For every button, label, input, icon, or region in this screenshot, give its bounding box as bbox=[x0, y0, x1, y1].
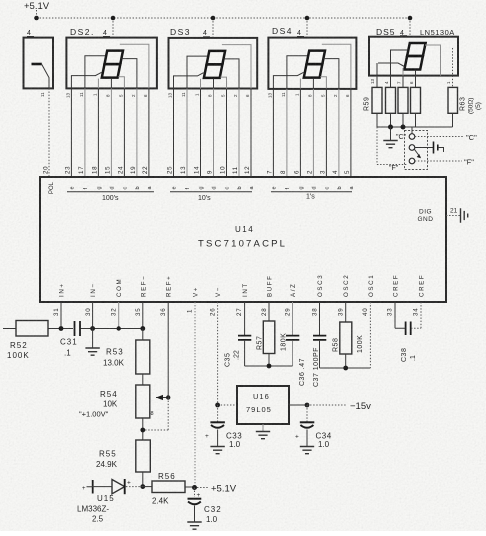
pin 4 of half-digit display bbox=[27, 30, 34, 37]
U14 bottom pin labels bbox=[59, 274, 426, 297]
U14 top pin numbers 10's group bbox=[167, 166, 252, 174]
label "F" terminal bbox=[464, 158, 474, 167]
wire V- pin26 to U16 bbox=[215, 302, 237, 407]
capacitor C33 bbox=[205, 405, 242, 449]
wire input row to REF- bbox=[48, 328, 143, 330]
7-segment digit inside DS5 bbox=[377, 43, 453, 76]
U14 bottom pin numbers bbox=[53, 308, 420, 316]
node rail junction at left bbox=[34, 16, 39, 21]
capacitor C35 bbox=[225, 302, 252, 367]
node COM bbox=[117, 302, 121, 331]
ground below C34 bbox=[300, 447, 314, 454]
node IN- bbox=[90, 302, 95, 331]
switch contact C bbox=[409, 127, 415, 139]
capacitor C32 bbox=[188, 488, 222, 525]
node -15V junction bbox=[289, 403, 309, 408]
wire bundle DS3 to U14 bbox=[174, 89, 252, 178]
half-digit display (minus sign) box bbox=[24, 38, 54, 89]
node R54 bottom bbox=[140, 418, 145, 440]
node rail junction DS5 bbox=[408, 16, 413, 21]
label "C" near ground bbox=[396, 134, 407, 141]
group bracket 1's bbox=[271, 192, 352, 201]
ground below C32 bbox=[187, 522, 201, 529]
POL pin label inside U14 bbox=[49, 181, 55, 194]
node bank bus dot 1 bbox=[388, 125, 393, 130]
U14 top pin numbers 1's group bbox=[267, 170, 352, 174]
net +5.1V at R56 bbox=[197, 484, 237, 495]
wire to F terminal bbox=[415, 160, 462, 162]
U14 part number TSC7107ACPL bbox=[198, 239, 287, 250]
wire +5.1V rail (dotted) bbox=[37, 10, 411, 38]
switch contact common bbox=[409, 145, 421, 159]
node bank bus dot 2 bbox=[401, 125, 406, 130]
net +5.1V top label bbox=[24, 1, 50, 12]
capacitor C38 bbox=[395, 302, 421, 362]
segment letters 10's group inside U14 bbox=[172, 186, 256, 190]
pin 4 of DS2 bbox=[103, 30, 110, 37]
U14 reference designator bbox=[235, 225, 254, 234]
capacitor C36 bbox=[286, 302, 306, 386]
switch S (C/F select) dashed box bbox=[405, 131, 428, 170]
wire REF+ to wiper bbox=[143, 302, 168, 430]
battery symbol at switch common bbox=[415, 142, 444, 154]
wire pin 21 to ground bbox=[446, 215, 460, 217]
wire oscillator node bbox=[320, 366, 371, 371]
resistor R58 bbox=[333, 302, 365, 368]
label "F" near switch bbox=[389, 165, 399, 172]
wire resistor bank bottom bus bbox=[377, 113, 453, 127]
ground at pin 21 (rotated) bbox=[461, 208, 468, 222]
net -15V label bbox=[307, 401, 371, 412]
resistor network R59 bbox=[364, 76, 421, 114]
group bracket 100's bbox=[67, 192, 154, 202]
pin 4 of DS3 bbox=[203, 30, 210, 37]
wire bundle DS4 to U14 bbox=[273, 89, 351, 177]
resistor R55 bbox=[96, 440, 150, 472]
capacitor C34 bbox=[295, 405, 332, 449]
U15 labels bbox=[77, 494, 115, 524]
pin 4 of DS4 bbox=[297, 30, 304, 37]
node REF- bbox=[140, 302, 145, 331]
resistor R52 bbox=[3, 321, 48, 361]
display DS5 bbox=[369, 27, 458, 76]
segment letters 1's group inside U14 bbox=[272, 186, 356, 190]
wire bundle DS2 to U14 bbox=[71, 88, 148, 177]
capacitor C31 bbox=[60, 321, 80, 358]
display DS4 bbox=[268, 26, 356, 89]
pin 21 number bbox=[450, 208, 458, 215]
node IN+ bbox=[59, 302, 64, 331]
wire bank to switch F contact bbox=[377, 127, 408, 165]
resistor R63 bbox=[448, 76, 482, 114]
group bracket 10's bbox=[170, 192, 252, 202]
switch contact F bbox=[409, 158, 415, 164]
ground below C33 bbox=[210, 447, 224, 454]
node rail junction DS2 bbox=[111, 16, 116, 21]
node rail junction DS3 bbox=[211, 16, 216, 21]
segment letters 100's group inside U14 bbox=[70, 186, 154, 190]
zener U15 LM336Z-2.5 bbox=[82, 479, 143, 494]
potentiometer R54 bbox=[79, 374, 150, 419]
DS5 package pin numbers bbox=[370, 78, 451, 84]
resistor R56 bbox=[143, 472, 195, 506]
wiper of R54 bbox=[151, 395, 171, 417]
minus-sign segment inside half-digit display bbox=[32, 64, 50, 88]
DS2 package pin numbers bbox=[66, 92, 149, 98]
IC U14 body bbox=[40, 177, 446, 302]
display DS2 bbox=[66, 27, 156, 88]
label "C" terminal bbox=[466, 133, 477, 142]
resistor R57 bbox=[257, 302, 288, 366]
display DS3 bbox=[169, 27, 258, 89]
DIG GND pin label inside U14 bbox=[418, 209, 434, 224]
node R55 bottom junction bbox=[140, 472, 145, 489]
ground at display bank bbox=[383, 127, 397, 148]
regulator U16 79L05 bbox=[237, 386, 289, 424]
DS4 package pin numbers bbox=[268, 92, 351, 98]
DS3 package pin numbers bbox=[168, 92, 251, 98]
ground at IN- bbox=[85, 329, 99, 356]
ground below U16 bbox=[256, 424, 270, 439]
wire V+ pin1 down to +5.1V node bbox=[192, 302, 197, 490]
resistor R53 bbox=[103, 329, 150, 375]
part number LN5130A of DS5 bbox=[420, 28, 455, 37]
capacitor C37 bbox=[313, 302, 326, 387]
node rail junction DS4 bbox=[305, 16, 310, 21]
wire to C terminal bbox=[415, 136, 464, 138]
wire integrator node bbox=[245, 364, 293, 369]
U14 top pin numbers 100's group bbox=[43, 166, 150, 174]
wire POL half-digit to U14 pin 20 bbox=[40, 88, 49, 177]
pin 4 of DS5 bbox=[400, 30, 407, 37]
wire OSC1 pin40 bbox=[369, 302, 371, 368]
